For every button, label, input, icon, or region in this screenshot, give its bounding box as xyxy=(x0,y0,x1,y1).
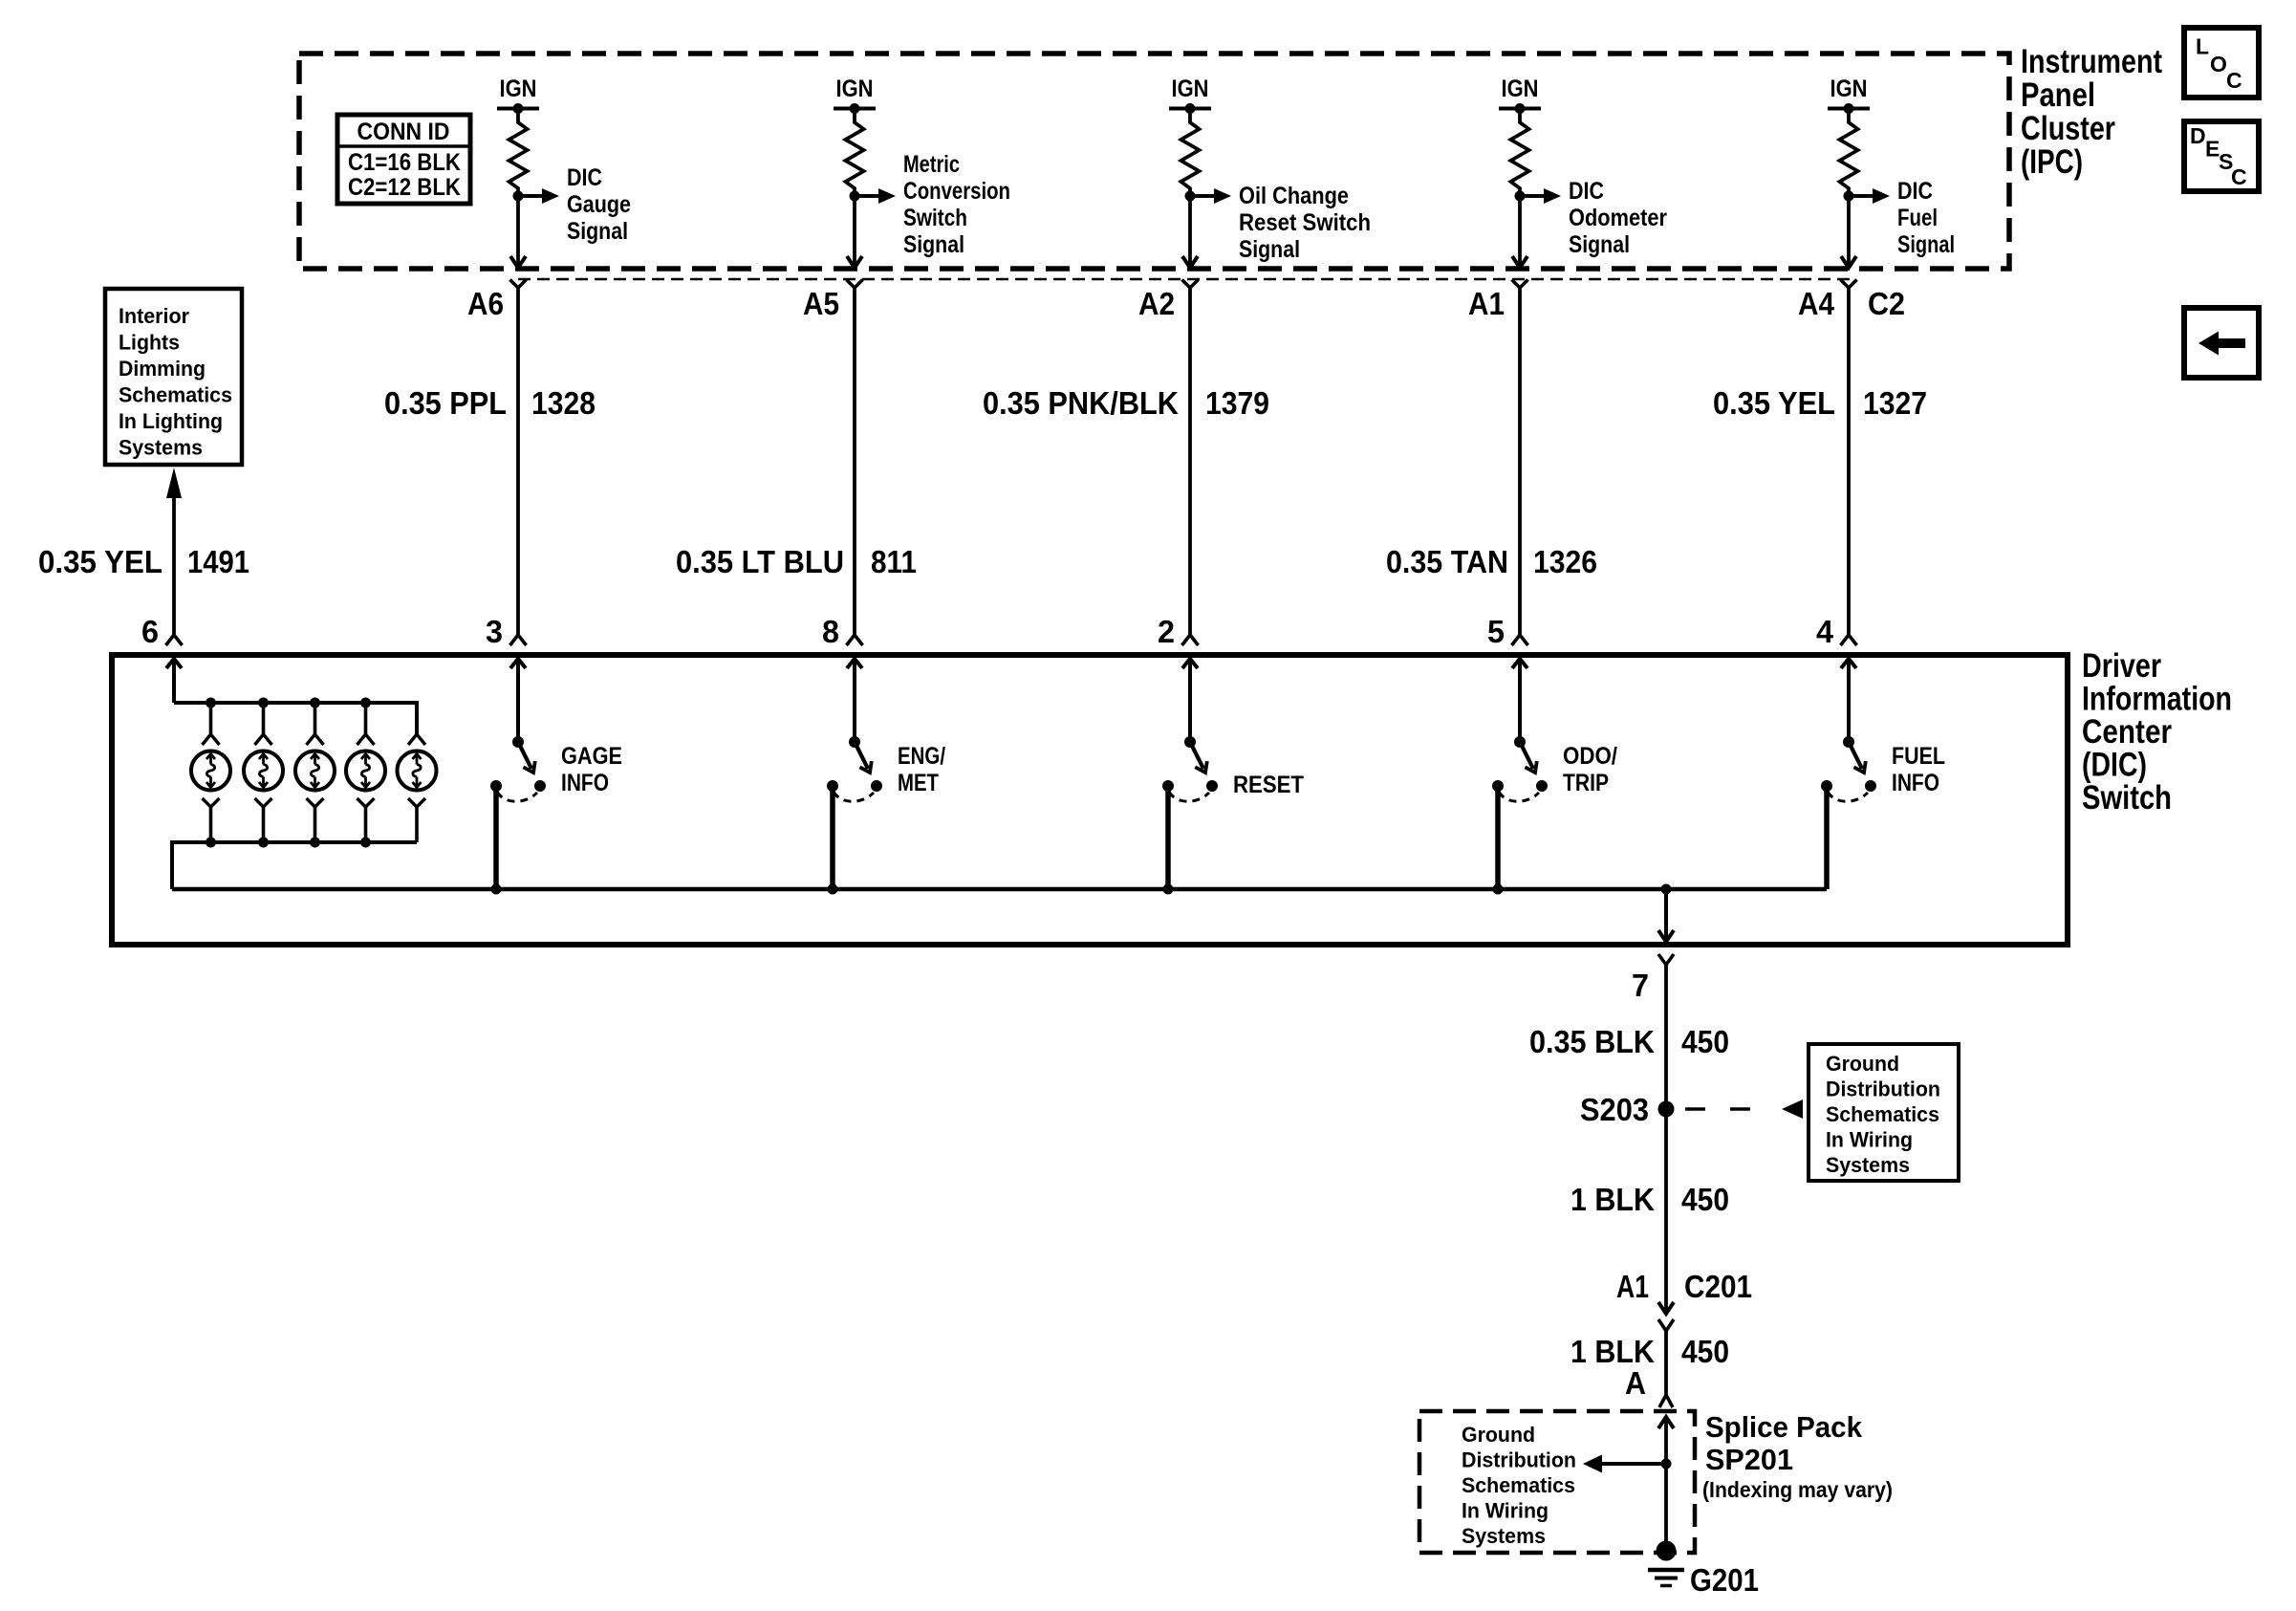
lamp feed bus xyxy=(174,703,417,734)
svg-text:In Wiring: In Wiring xyxy=(1826,1128,1913,1152)
resistor R4 (IPC pull-up) xyxy=(1511,109,1529,197)
resistor R5 bottom junction dot xyxy=(1844,191,1854,202)
switch SW2 right contact dot xyxy=(871,780,882,792)
switch SW1 blade with travel arrow xyxy=(518,742,535,773)
svg-text:0.35 PNK/BLK: 0.35 PNK/BLK xyxy=(983,385,1179,421)
splice ground dot xyxy=(1657,1541,1677,1561)
wire resistor R5 to IPC pin A4 xyxy=(1841,196,1856,268)
Splice Pack label text xyxy=(1702,1410,1893,1502)
IGN feed junction dot 4 xyxy=(1515,103,1526,114)
svg-text:2: 2 xyxy=(1158,614,1175,649)
svg-text:Systems: Systems xyxy=(1826,1153,1910,1177)
splice pack branch junction dot xyxy=(1661,1459,1672,1469)
connector half (male) splice pack pin A xyxy=(1659,1395,1673,1407)
switch SW1 momentary dashed arc xyxy=(497,792,537,801)
switch label FUELINFO xyxy=(1892,743,1945,796)
signal tap arrow DIC Odometer Signal xyxy=(1520,188,1561,204)
svg-text:450: 450 xyxy=(1681,1334,1729,1369)
switch SW5 right contact dot xyxy=(1865,780,1876,792)
svg-text:450: 450 xyxy=(1681,1024,1729,1059)
IGN feed junction dot 3 xyxy=(1185,103,1196,114)
DIC entry arrow pin 5 xyxy=(1512,659,1527,668)
Splice Pack entry arrow xyxy=(1658,1417,1674,1428)
svg-text:7: 7 xyxy=(1632,968,1649,1003)
svg-text:Schematics: Schematics xyxy=(1826,1102,1939,1126)
svg-text:C2: C2 xyxy=(1868,286,1905,321)
svg-text:6: 6 xyxy=(141,614,159,649)
connector half (female) pin A5 xyxy=(847,280,863,289)
illumination lamp 5 xyxy=(398,734,437,842)
svg-text:Ground: Ground xyxy=(1826,1052,1899,1076)
svg-text:1 BLK: 1 BLK xyxy=(1570,1182,1655,1217)
connector half (female) pin A4 xyxy=(1841,280,1857,289)
svg-text:Distribution: Distribution xyxy=(1826,1078,1940,1101)
IPC title text xyxy=(2021,43,2162,181)
connector C201 symbol xyxy=(1658,1302,1674,1331)
wire A2 to pin 2 xyxy=(1188,288,1192,635)
signal tap arrow Oil Change Reset Switch Signal xyxy=(1190,188,1231,204)
wire resistor R4 to IPC pin A1 xyxy=(1512,196,1527,268)
wire switch SW5 common to return bus xyxy=(1824,786,1830,889)
illumination lamp 3 xyxy=(295,703,335,842)
svg-text:4: 4 xyxy=(1816,614,1834,649)
lamp feed bus junction dot 2 xyxy=(258,698,269,708)
splice pack reference branch wire xyxy=(1602,1462,1666,1466)
svg-text:ODO/: ODO/ xyxy=(1563,743,1617,770)
svg-text:450: 450 xyxy=(1681,1182,1729,1217)
switch SW3 blade with travel arrow xyxy=(1190,742,1207,773)
wire A4 to pin 4 xyxy=(1847,288,1851,635)
wire DIC pin to switch SW4 pivot xyxy=(1518,659,1522,742)
svg-text:DIC: DIC xyxy=(567,164,602,191)
IGN feed bar 5 xyxy=(1828,107,1870,111)
IGN feed bar 1 xyxy=(497,107,539,111)
svg-text:A1: A1 xyxy=(1468,286,1505,321)
svg-text:INFO: INFO xyxy=(561,770,609,796)
IGN feed junction dot 2 xyxy=(850,103,860,114)
svg-text:Dimming: Dimming xyxy=(119,357,206,381)
IGN feed bar 3 xyxy=(1169,107,1211,111)
switch SW1 right contact dot xyxy=(534,780,546,792)
wire label 0.35 LT BLU 811 xyxy=(676,544,917,579)
wire switch SW4 common to return bus xyxy=(1495,786,1501,889)
switch SW2 pivot dot xyxy=(849,736,860,748)
svg-text:A6: A6 xyxy=(467,286,504,321)
svg-text:IGN: IGN xyxy=(1830,76,1868,102)
switch SW5 momentary dashed arc xyxy=(1828,792,1868,801)
svg-text:0.35 BLK: 0.35 BLK xyxy=(1529,1024,1655,1059)
wire return bus to DIC pin 7 xyxy=(1658,889,1674,942)
connector half (male) DIC pin wire 3 xyxy=(1182,635,1199,645)
lamp return bus junction dot 4 xyxy=(360,838,371,848)
svg-text:1326: 1326 xyxy=(1533,544,1597,579)
svg-text:Reset Switch: Reset Switch xyxy=(1239,209,1371,236)
illumination lamp 2 xyxy=(244,703,283,842)
svg-text:8: 8 xyxy=(822,614,839,649)
connector C201 pin A1 labels xyxy=(1616,1269,1752,1304)
switch SW3 left contact dot xyxy=(1162,780,1174,792)
wire label 0.35 YEL 1491 xyxy=(38,544,249,579)
switch label ENG/MET xyxy=(898,743,945,796)
svg-text:Splice Pack: Splice Pack xyxy=(1705,1410,1863,1444)
switch SW4 left contact dot xyxy=(1492,780,1504,792)
svg-text:0.35 YEL: 0.35 YEL xyxy=(1713,385,1835,421)
DIC switch enclosure box xyxy=(112,655,2068,945)
DIC entry arrow pin 3 xyxy=(510,659,526,668)
signal label DIC Odometer Signal xyxy=(1569,178,1667,258)
svg-text:Cluster: Cluster xyxy=(2021,110,2115,147)
svg-text:Interior: Interior xyxy=(119,304,189,328)
svg-text:Instrument: Instrument xyxy=(2021,43,2162,80)
switch SW4 pivot dot xyxy=(1514,736,1526,748)
switch label ODO/TRIP xyxy=(1563,743,1617,796)
lamp feed bus junction dot 4 xyxy=(360,698,371,708)
svg-text:In Wiring: In Wiring xyxy=(1462,1499,1549,1523)
CONN ID table box xyxy=(337,115,470,204)
connector half (male) DIC pin wire 2 xyxy=(847,635,863,645)
connector half (male) DIC pin wire 4 xyxy=(1512,635,1528,645)
svg-text:Center: Center xyxy=(2082,713,2172,751)
svg-text:FUEL: FUEL xyxy=(1892,743,1945,770)
DIC entry arrow pin 2 xyxy=(1182,659,1198,668)
svg-text:A4: A4 xyxy=(1798,286,1835,321)
svg-text:5: 5 xyxy=(1487,614,1505,649)
svg-text:Driver: Driver xyxy=(2082,647,2161,685)
resistor R1 (IPC pull-up) xyxy=(509,109,528,197)
svg-text:0.35 TAN: 0.35 TAN xyxy=(1386,544,1508,579)
switch SW2 blade with travel arrow xyxy=(855,742,872,773)
switch SW4 momentary dashed arc xyxy=(1499,792,1539,801)
wire DIC pin to switch SW5 pivot xyxy=(1847,659,1851,742)
svg-text:L: L xyxy=(2196,34,2209,59)
lamp feed bus junction dot 3 xyxy=(310,698,320,708)
resistor R4 bottom junction dot xyxy=(1515,191,1526,202)
svg-text:Conversion: Conversion xyxy=(903,178,1010,205)
wire label 1 BLK 450 (lower) xyxy=(1570,1334,1729,1369)
connector half (male) DIC pin wire 5 xyxy=(1841,635,1857,645)
connector half (female) DIC pin 6 xyxy=(166,635,183,645)
node S203 splice dot xyxy=(1658,1101,1675,1118)
wire A1 to pin 5 xyxy=(1518,288,1522,635)
svg-text:D: D xyxy=(2190,123,2206,148)
wire label 1 BLK 450 (upper) xyxy=(1570,1182,1729,1217)
IGN feed bar 4 xyxy=(1499,107,1541,111)
svg-text:Systems: Systems xyxy=(119,436,203,460)
wire A6 to pin 3 xyxy=(516,288,520,635)
svg-text:1 BLK: 1 BLK xyxy=(1570,1334,1655,1369)
svg-text:Systems: Systems xyxy=(1462,1524,1546,1548)
wire resistor R3 to IPC pin A2 xyxy=(1182,196,1198,268)
svg-text:Signal: Signal xyxy=(903,231,964,258)
wire C201 to splice pack (1 BLK 450) xyxy=(1664,1331,1668,1395)
svg-text:Gauge: Gauge xyxy=(567,191,631,218)
switch SW1 left contact dot xyxy=(490,780,502,792)
lamp return bus junction dot 1 xyxy=(206,838,216,848)
wire DIC pin to switch SW2 pivot xyxy=(853,659,856,742)
signal label DIC Gauge Signal xyxy=(567,164,631,245)
svg-text:Ground: Ground xyxy=(1462,1423,1535,1447)
switch SW2 momentary dashed arc xyxy=(834,792,874,801)
svg-text:A2: A2 xyxy=(1138,286,1175,321)
svg-text:G201: G201 xyxy=(1690,1562,1759,1598)
svg-text:Odometer: Odometer xyxy=(1569,205,1667,231)
svg-text:GAGE: GAGE xyxy=(561,743,622,770)
svg-text:C1=16 BLK: C1=16 BLK xyxy=(348,149,461,176)
svg-text:S203: S203 xyxy=(1580,1092,1649,1127)
switch SW5 left contact dot xyxy=(1821,780,1832,792)
svg-text:IGN: IGN xyxy=(836,76,874,102)
svg-text:MET: MET xyxy=(898,770,939,796)
svg-text:IGN: IGN xyxy=(500,76,537,102)
resistor R5 (IPC pull-up) xyxy=(1840,109,1858,197)
svg-text:Panel: Panel xyxy=(2021,76,2095,114)
connector half below DIC pin 7 xyxy=(1658,954,1674,965)
wire A5 to pin 8 xyxy=(853,288,856,635)
svg-text:DIC: DIC xyxy=(1569,178,1604,205)
connector half (female) pin A6 xyxy=(510,280,527,289)
wire resistor R2 to IPC pin A5 xyxy=(847,196,862,268)
svg-text:C2=12 BLK: C2=12 BLK xyxy=(348,174,461,201)
wire label 0.35 YEL 1327 xyxy=(1713,385,1927,421)
svg-text:A5: A5 xyxy=(803,286,839,321)
connector half (female) pin A2 xyxy=(1182,280,1199,289)
illumination lamp 4 xyxy=(346,703,385,842)
svg-text:RESET: RESET xyxy=(1233,772,1304,798)
S203 reference arrowhead xyxy=(1782,1099,1803,1119)
resistor R2 (IPC pull-up) xyxy=(846,109,864,197)
svg-text:Signal: Signal xyxy=(567,218,628,245)
connector half (male) DIC pin wire 1 xyxy=(510,635,527,645)
svg-text:INFO: INFO xyxy=(1892,770,1939,796)
svg-text:(DIC): (DIC) xyxy=(2082,747,2147,784)
wire switch SW1 common to return bus xyxy=(493,786,499,889)
lamp return bus junction dot 3 xyxy=(310,838,320,848)
svg-text:SP201: SP201 xyxy=(1705,1443,1793,1476)
svg-text:Information: Information xyxy=(2082,681,2232,718)
svg-text:C201: C201 xyxy=(1684,1269,1752,1304)
wire label 0.35 BLK 450 xyxy=(1529,1024,1729,1059)
svg-text:0.35 LT BLU: 0.35 LT BLU xyxy=(676,544,844,579)
wire pin 6 to Interior Lights box (0.35 YEL 1491) xyxy=(166,468,182,635)
Ground Distribution reference text (splice pack) xyxy=(1462,1423,1576,1548)
signal tap arrow DIC Fuel Signal xyxy=(1849,188,1890,204)
Interior Lights Dimming reference box xyxy=(105,289,242,465)
svg-text:811: 811 xyxy=(871,544,917,579)
wire switch SW3 common to return bus xyxy=(1165,786,1171,889)
svg-text:CONN ID: CONN ID xyxy=(357,119,450,145)
ground symbol G201 xyxy=(1648,1570,1684,1586)
IGN feed junction dot 1 xyxy=(513,103,524,114)
svg-text:3: 3 xyxy=(486,614,503,649)
svg-text:Signal: Signal xyxy=(1897,231,1955,258)
Ground Distribution reference box (S203) xyxy=(1809,1044,1959,1181)
signal tap arrow Metric Conversion Switch Signal xyxy=(855,188,896,204)
svg-text:Signal: Signal xyxy=(1239,236,1300,263)
resistor R3 (IPC pull-up) xyxy=(1181,109,1200,197)
signal label Oil Change Reset Switch Signal xyxy=(1239,183,1371,263)
switch label GAGEINFO xyxy=(561,743,622,796)
svg-text:Metric: Metric xyxy=(903,151,960,178)
switch SW5 pivot dot xyxy=(1843,736,1854,748)
svg-text:0.35 YEL: 0.35 YEL xyxy=(38,544,162,579)
resistor R3 bottom junction dot xyxy=(1185,191,1196,202)
svg-text:Switch: Switch xyxy=(2082,779,2172,816)
wire label 0.35 PNK/BLK 1379 xyxy=(983,385,1269,421)
switch SW2 left contact dot xyxy=(827,780,838,792)
svg-text:A: A xyxy=(1625,1365,1646,1401)
wire DIC pin 7 to C201 (0.35 BLK 450) xyxy=(1664,965,1668,1314)
Splice Pack SP201 dashed box xyxy=(1419,1411,1695,1553)
svg-text:Switch: Switch xyxy=(903,205,967,231)
DIC entry arrow pin 4 xyxy=(1841,659,1856,668)
DIC entry arrow pin 8 xyxy=(847,659,862,668)
IGN feed junction dot 5 xyxy=(1844,103,1854,114)
svg-text:(IPC): (IPC) xyxy=(2021,143,2083,181)
DESC reference icon box xyxy=(2184,121,2259,191)
svg-text:1491: 1491 xyxy=(187,544,249,579)
svg-text:IGN: IGN xyxy=(1502,76,1539,102)
IGN feed bar 2 xyxy=(834,107,876,111)
IPC connector boundary thin dashed line xyxy=(518,278,1850,281)
svg-text:1379: 1379 xyxy=(1205,385,1269,421)
switch SW5 blade with travel arrow xyxy=(1849,742,1866,773)
svg-text:IGN: IGN xyxy=(1172,76,1209,102)
switch SW4 right contact dot xyxy=(1536,780,1548,792)
svg-text:1328: 1328 xyxy=(531,385,596,421)
lamp feed bus junction dot 1 xyxy=(206,698,216,708)
svg-text:Schematics: Schematics xyxy=(1462,1473,1575,1497)
wire switch SW2 common to return bus xyxy=(830,786,835,889)
svg-text:Schematics: Schematics xyxy=(119,383,232,407)
svg-text:O: O xyxy=(2210,52,2227,76)
wire label 0.35 PPL 1328 xyxy=(384,385,596,421)
LOC reference icon box xyxy=(2184,28,2259,98)
switch SW3 momentary dashed arc xyxy=(1169,792,1209,801)
splice pack reference arrowhead xyxy=(1583,1455,1602,1473)
return bus output junction dot xyxy=(1661,884,1672,895)
signal label DIC Fuel Signal xyxy=(1897,178,1955,258)
wire pin 6 to lamp feed bus xyxy=(172,659,176,703)
svg-text:A1: A1 xyxy=(1616,1269,1649,1304)
wire label 0.35 TAN 1326 xyxy=(1386,544,1597,579)
svg-text:ENG/: ENG/ xyxy=(898,743,945,770)
svg-text:DIC: DIC xyxy=(1897,178,1933,205)
switch SW1 pivot dot xyxy=(512,736,524,748)
svg-text:In Lighting: In Lighting xyxy=(119,409,223,433)
svg-text:Fuel: Fuel xyxy=(1897,205,1938,231)
lamp return bus xyxy=(172,842,417,889)
switch SW3 pivot dot xyxy=(1184,736,1196,748)
svg-text:1327: 1327 xyxy=(1863,385,1927,421)
svg-text:TRIP: TRIP xyxy=(1563,770,1609,796)
switch common return bus xyxy=(172,887,1827,892)
svg-text:Lights: Lights xyxy=(119,331,180,355)
wire resistor R1 to IPC pin A6 xyxy=(510,196,526,268)
DIC entry arrow pin 6 xyxy=(166,659,182,668)
resistor R2 bottom junction dot xyxy=(850,191,860,202)
connector half (female) pin A1 xyxy=(1512,280,1528,289)
return bus junction dot SW3 xyxy=(1163,884,1174,895)
wire DIC pin to switch SW3 pivot xyxy=(1188,659,1192,742)
signal tap arrow DIC Gauge Signal xyxy=(518,188,559,204)
svg-text:Oil Change: Oil Change xyxy=(1239,183,1349,209)
switch SW4 blade with travel arrow xyxy=(1520,742,1537,773)
DIC switch title text xyxy=(2082,647,2232,816)
wire DIC pin to switch SW1 pivot xyxy=(516,659,520,742)
back arrow icon box xyxy=(2184,308,2259,378)
illumination lamp 1 xyxy=(191,703,230,842)
resistor R1 bottom junction dot xyxy=(513,191,524,202)
Interior Lights box text xyxy=(119,304,232,460)
return bus junction dot SW4 xyxy=(1493,884,1504,895)
return bus junction dot SW2 xyxy=(828,884,838,895)
signal label Metric Conversion Switch Signal xyxy=(903,151,1010,258)
lamp return bus junction dot 2 xyxy=(258,838,269,848)
wire splice pack internal xyxy=(1664,1417,1668,1551)
svg-text:(Indexing may vary): (Indexing may vary) xyxy=(1702,1477,1893,1502)
svg-text:C: C xyxy=(2226,68,2242,93)
svg-text:C: C xyxy=(2231,164,2247,189)
S203 dashed reference line xyxy=(1685,1107,1770,1111)
svg-text:Distribution: Distribution xyxy=(1462,1448,1576,1472)
svg-text:0.35 PPL: 0.35 PPL xyxy=(384,385,507,421)
IPC dashed enclosure box xyxy=(299,54,2009,269)
svg-text:Signal: Signal xyxy=(1569,231,1630,258)
return bus junction dot SW1 xyxy=(491,884,502,895)
switch SW3 right contact dot xyxy=(1206,780,1218,792)
